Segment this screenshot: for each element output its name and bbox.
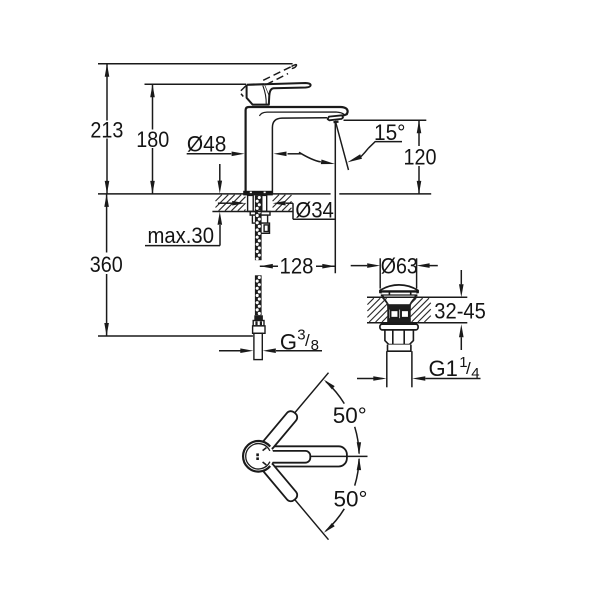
diameter 63 witness lines bbox=[379, 258, 381, 288]
handle cartridge bbox=[247, 84, 270, 104]
handle raised position (dashed) bbox=[240, 67, 292, 97]
countertop hatching right bbox=[273, 195, 292, 211]
sink deck hatching (right view) bbox=[367, 298, 388, 322]
dimension 128 arrows bbox=[260, 264, 273, 269]
svg-text:Ø48: Ø48 bbox=[187, 131, 227, 156]
drain locknut bbox=[385, 330, 414, 351]
lower 50deg arc outer segment bbox=[326, 509, 345, 531]
dimension 120 line bbox=[418, 120, 420, 146]
G3/8 connection nipple bbox=[253, 326, 265, 360]
flexible hose lower section (braided) bbox=[255, 275, 262, 315]
upper 50deg arc outer segment bbox=[326, 381, 345, 403]
bottom extension line (360) bbox=[98, 335, 253, 337]
dimension 32-45 line bbox=[460, 270, 462, 284]
svg-text:50°: 50° bbox=[333, 403, 367, 428]
svg-text:180: 180 bbox=[136, 127, 169, 152]
handle axis centerline bbox=[310, 455, 368, 457]
svg-text:4: 4 bbox=[471, 365, 479, 382]
svg-text:360: 360 bbox=[90, 252, 123, 277]
sink deck line bottom (right view) bbox=[367, 322, 467, 324]
svg-text:213: 213 bbox=[90, 117, 123, 142]
extension line for 180 (lever height) bbox=[145, 83, 247, 85]
diameter 48 dimension line bbox=[187, 153, 232, 155]
svg-text:/: / bbox=[466, 359, 471, 378]
15 degree arc right bbox=[361, 148, 368, 156]
extension line -50 deg bbox=[295, 500, 329, 540]
svg-text:max.30: max.30 bbox=[148, 223, 215, 248]
flexible hose upper section (braided) bbox=[255, 195, 262, 260]
svg-text:128: 128 bbox=[280, 253, 314, 278]
dimension 120 arrows bbox=[417, 120, 422, 133]
dimension 360 arrows bbox=[104, 194, 109, 207]
countertop underside line bbox=[212, 211, 292, 213]
top view logo mark bbox=[256, 453, 259, 456]
15 degree spray line bbox=[335, 121, 348, 170]
upper 50deg arc inner segment bbox=[355, 427, 359, 454]
svg-text:Ø63: Ø63 bbox=[381, 253, 418, 278]
G1 1/4 dimension line bbox=[357, 378, 374, 380]
extension line spout height (120) bbox=[344, 119, 427, 121]
dimension 213 line bbox=[106, 64, 108, 121]
faucet spout inner line bbox=[260, 112, 345, 116]
svg-text:32-45: 32-45 bbox=[434, 298, 486, 323]
svg-text:Ø34: Ø34 bbox=[295, 197, 334, 222]
top view faucet body circle bbox=[243, 441, 274, 472]
15 degree arc left bbox=[299, 152, 321, 162]
15 degree leader underline bbox=[368, 142, 402, 149]
G 3/8 dimension line bbox=[219, 350, 241, 352]
drain valve cap (dome) bbox=[380, 285, 419, 296]
top view handle lever (center position) bbox=[255, 446, 347, 466]
countertop hatching left bbox=[216, 195, 246, 211]
mounting shank tubes bbox=[248, 195, 267, 211]
drain seal washer bbox=[380, 324, 418, 330]
spout centerline (vertical) bbox=[334, 122, 336, 274]
dimension 213 arrows bbox=[105, 64, 110, 77]
svg-text:G1: G1 bbox=[429, 356, 458, 381]
mounting locknut bbox=[250, 212, 270, 234]
dimension 128 line bbox=[260, 265, 278, 267]
diameter 63 dimension line bbox=[351, 265, 368, 267]
diameter 34 arrows bbox=[218, 202, 233, 204]
countertop surface line bbox=[98, 193, 331, 195]
sink deck line top (right view) bbox=[367, 296, 467, 298]
dimension 180 line bbox=[152, 84, 154, 129]
base escutcheon plate bbox=[243, 191, 273, 196]
handle lever (down position) bbox=[265, 83, 311, 96]
hose end fitting bbox=[253, 315, 264, 326]
max.30 arrows bbox=[219, 164, 221, 181]
top view handle lever (-50 deg) bbox=[261, 461, 299, 503]
dimension 360 line bbox=[106, 194, 108, 253]
max.30 leader line bbox=[145, 245, 220, 247]
top view handle lever (+50 deg) bbox=[261, 409, 299, 451]
top extension line (213) bbox=[98, 63, 293, 65]
drain tailpipe bbox=[386, 351, 388, 387]
extension line +50 deg bbox=[295, 373, 329, 413]
diameter 34 leader bbox=[292, 203, 294, 219]
faucet body outline (side view) bbox=[246, 107, 348, 194]
svg-text:/: / bbox=[305, 331, 310, 350]
lower 50deg arc inner segment bbox=[355, 459, 359, 486]
svg-text:120: 120 bbox=[404, 144, 437, 169]
dimension 180 arrows bbox=[150, 84, 155, 97]
drain valve body through deck bbox=[383, 296, 416, 324]
svg-text:50°: 50° bbox=[334, 487, 368, 512]
faucet aerator outlet bbox=[328, 115, 343, 122]
